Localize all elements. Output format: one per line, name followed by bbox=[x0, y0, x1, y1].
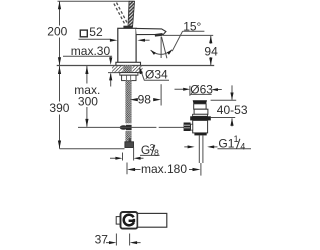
svg-text:98: 98 bbox=[138, 93, 152, 107]
svg-text:max.180: max.180 bbox=[141, 162, 187, 176]
svg-text:4: 4 bbox=[240, 142, 245, 152]
svg-text:Ø34: Ø34 bbox=[145, 68, 168, 82]
svg-text:52: 52 bbox=[89, 25, 103, 39]
svg-text:40-53: 40-53 bbox=[217, 103, 248, 117]
svg-text:1: 1 bbox=[234, 134, 239, 144]
svg-text:390: 390 bbox=[49, 101, 69, 115]
svg-text:200: 200 bbox=[47, 25, 67, 39]
svg-text:Ø63: Ø63 bbox=[190, 82, 213, 96]
svg-text:G1: G1 bbox=[218, 136, 234, 150]
svg-text:37: 37 bbox=[95, 233, 109, 247]
svg-text:300: 300 bbox=[78, 94, 98, 108]
svg-text:max.30: max.30 bbox=[71, 44, 111, 58]
svg-text:15°: 15° bbox=[183, 19, 201, 33]
svg-text:8: 8 bbox=[154, 148, 159, 158]
svg-text:94: 94 bbox=[204, 45, 218, 59]
